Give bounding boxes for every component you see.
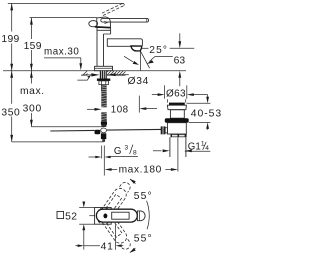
svg-text:159: 159 (24, 41, 42, 52)
svg-text:G1: G1 (188, 142, 201, 153)
svg-text:Ø63: Ø63 (166, 89, 186, 100)
svg-text:8: 8 (133, 150, 137, 157)
svg-text:40-53: 40-53 (191, 109, 222, 120)
svg-text:41: 41 (101, 241, 114, 252)
svg-text:Ø34: Ø34 (128, 76, 150, 87)
svg-text:max.180: max.180 (119, 165, 162, 176)
svg-text:max.: max. (20, 86, 45, 97)
svg-text:G: G (114, 146, 122, 157)
svg-text:108: 108 (111, 104, 129, 115)
svg-text:3: 3 (125, 145, 129, 152)
svg-text:55°: 55° (134, 191, 153, 202)
svg-text:max.30: max.30 (44, 47, 79, 58)
svg-text:350: 350 (1, 107, 20, 118)
svg-text:55°: 55° (134, 233, 153, 244)
svg-text:63: 63 (174, 55, 186, 66)
svg-text:4: 4 (205, 145, 209, 152)
svg-text:52: 52 (65, 212, 77, 223)
svg-text:25°: 25° (149, 45, 168, 56)
svg-text:300: 300 (23, 103, 42, 114)
svg-text:199: 199 (1, 34, 19, 45)
